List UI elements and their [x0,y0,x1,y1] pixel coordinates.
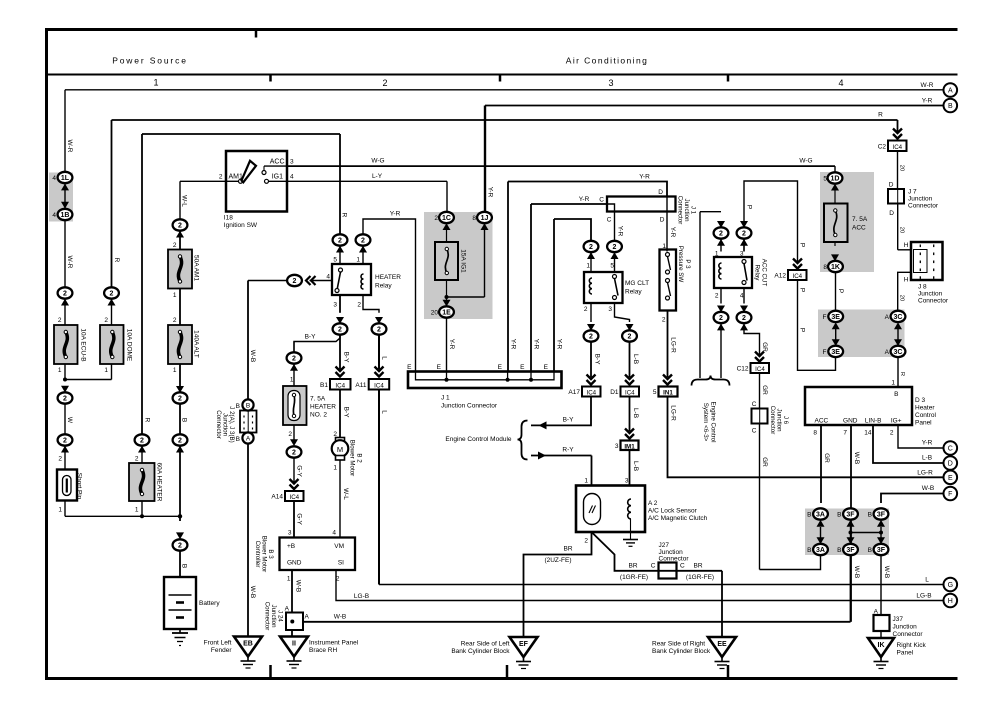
svg-text:20: 20 [431,310,439,317]
svg-text:Connector: Connector [215,410,222,439]
svg-text:Short Pin: Short Pin [75,473,82,500]
svg-text:C2: C2 [878,144,887,151]
svg-text:System <6-3>: System <6-3> [702,403,709,442]
svg-text:1: 1 [891,380,895,387]
svg-text:3: 3 [608,78,613,88]
svg-text:IC4: IC4 [335,382,345,389]
svg-text:G: G [948,582,953,589]
svg-text:2: 2 [589,334,593,341]
svg-text:Ignition SW: Ignition SW [224,222,258,229]
svg-text:Junction: Junction [918,291,943,298]
svg-text:D: D [658,189,663,196]
svg-text:10A ECU-B: 10A ECU-B [79,328,86,361]
svg-text:2: 2 [292,450,296,457]
svg-text:4: 4 [52,175,56,182]
svg-text:B: B [868,512,872,519]
svg-text:Power Source: Power Source [112,56,188,66]
svg-text:2: 2 [178,396,182,403]
svg-text:B 2: B 2 [355,453,362,463]
svg-text:2: 2 [178,438,182,445]
svg-text:Air Conditioning: Air Conditioning [566,56,648,66]
svg-text:1: 1 [287,576,291,583]
svg-text:VM: VM [334,543,344,550]
svg-text:2: 2 [110,291,114,298]
svg-text:1C: 1C [442,215,451,222]
svg-text:L-B: L-B [632,461,639,471]
svg-text:4: 4 [52,212,56,219]
svg-text:A: A [948,88,953,95]
svg-text:A: A [885,314,890,321]
svg-text:4: 4 [290,173,294,180]
svg-text:1K: 1K [831,264,840,271]
svg-text:P: P [837,289,844,293]
svg-text:ACC CUT: ACC CUT [760,259,767,287]
svg-text:GR: GR [823,453,830,463]
svg-text:D: D [948,461,953,468]
svg-text:(1GR-FE): (1GR-FE) [620,574,648,581]
svg-text:Connector: Connector [263,602,270,631]
svg-text:W-B: W-B [334,613,347,620]
svg-text:II: II [292,641,296,648]
svg-text:(1GR-FE): (1GR-FE) [686,574,714,581]
svg-text:Bank Cylinder Block: Bank Cylinder Block [652,648,711,655]
svg-text:Junction Connector: Junction Connector [441,403,498,410]
svg-text:B: B [868,547,872,554]
svg-text:I18: I18 [224,215,233,222]
svg-text:B: B [837,512,841,519]
svg-text:ACC: ACC [270,159,285,166]
svg-text:Relay: Relay [375,283,392,290]
svg-text:GND: GND [843,418,858,425]
svg-text:2: 2 [63,396,67,403]
svg-text:10A DOME: 10A DOME [125,329,132,362]
svg-text:L-B: L-B [632,354,639,364]
svg-text:W-L: W-L [180,195,187,207]
svg-text:B: B [948,103,953,110]
svg-text:3C: 3C [894,349,903,356]
svg-text:7. 5A: 7. 5A [310,396,326,403]
svg-text:2: 2 [104,317,108,324]
svg-text:LG-B: LG-B [916,593,931,600]
svg-text:E: E [544,364,549,371]
svg-text:3F: 3F [877,512,886,519]
svg-text:2: 2 [333,431,337,438]
svg-text:C12: C12 [737,366,749,373]
svg-text:3: 3 [625,478,629,485]
svg-text:A/C Magnetic Clutch: A/C Magnetic Clutch [648,515,708,522]
svg-text:C: C [752,401,757,408]
svg-text:B: B [807,547,811,554]
svg-text:J 7: J 7 [908,189,917,196]
svg-text:EF: EF [519,641,529,648]
svg-text:2: 2 [613,244,617,251]
svg-text:R: R [340,213,347,218]
svg-text:ACC: ACC [852,225,866,232]
svg-text:HEATER: HEATER [310,404,336,411]
svg-text:1: 1 [58,507,62,514]
svg-text:Connector: Connector [659,556,690,563]
svg-text:IC4: IC4 [892,144,902,151]
svg-text:F: F [823,314,827,321]
svg-text:2: 2 [719,231,723,238]
svg-text:3C: 3C [894,314,903,321]
svg-text:2: 2 [434,215,438,222]
svg-text:2: 2 [584,306,588,313]
svg-text:P 3: P 3 [684,259,691,269]
svg-text:Right Kick: Right Kick [897,642,927,649]
svg-text:B-Y: B-Y [563,417,575,424]
svg-text:GR: GR [761,457,768,467]
svg-text:Instrument Panel: Instrument Panel [309,640,359,647]
svg-text:1: 1 [333,465,337,472]
svg-text:H: H [904,277,909,284]
svg-text:C: C [680,563,685,570]
svg-text:(2UZ-FE): (2UZ-FE) [544,557,571,564]
svg-text:B-Y: B-Y [593,354,600,366]
svg-text:1: 1 [586,263,590,270]
svg-text:IM1: IM1 [624,443,635,450]
svg-text:W-B: W-B [853,566,860,579]
svg-text:5: 5 [333,257,337,264]
svg-text:2: 2 [338,238,342,245]
svg-text:4: 4 [332,530,336,537]
svg-text:Rear Side of Left: Rear Side of Left [461,641,510,648]
svg-text:Y-R: Y-R [922,98,933,105]
svg-text:C: C [651,563,656,570]
svg-text:15A IG1: 15A IG1 [459,249,466,273]
svg-text:R: R [878,112,883,119]
svg-text:Y-R: Y-R [509,339,516,350]
svg-text:2: 2 [288,431,292,438]
svg-text:E: E [407,364,412,371]
svg-text:2: 2 [377,327,381,334]
svg-text:Y-R: Y-R [532,339,539,350]
svg-text:IC4: IC4 [289,494,299,501]
svg-text:20: 20 [898,165,904,171]
svg-text:W-B: W-B [922,485,935,492]
svg-text:R: R [143,418,150,423]
svg-text:L: L [925,577,929,584]
svg-text:R-Y: R-Y [562,447,574,454]
svg-text:8: 8 [813,430,817,437]
svg-text:1: 1 [104,367,108,374]
svg-text:A: A [246,436,251,443]
svg-text:1: 1 [135,507,139,514]
svg-text:5: 5 [610,263,614,270]
svg-text:LG-R: LG-R [669,337,676,353]
svg-text:Connector: Connector [918,298,949,305]
svg-text:Fender: Fender [211,647,232,654]
svg-text:B1: B1 [320,382,328,389]
svg-text:2: 2 [63,438,67,445]
svg-text:2: 2 [135,456,139,463]
svg-text:W-G: W-G [371,158,384,165]
svg-text:Blower Motor: Blower Motor [348,440,355,476]
svg-text:A12: A12 [774,273,786,280]
svg-text:4: 4 [838,78,843,88]
svg-text:B: B [236,436,240,443]
svg-text:2: 2 [662,317,666,324]
svg-text:Brace RH: Brace RH [309,647,337,654]
svg-text:Front Left: Front Left [204,640,232,647]
svg-text:3A: 3A [816,512,825,519]
svg-text:A11: A11 [355,382,366,389]
svg-text:20: 20 [898,227,904,233]
svg-text:A14: A14 [271,494,283,501]
svg-text:EE: EE [717,641,727,648]
svg-text:Y-R: Y-R [922,440,933,447]
svg-text:1: 1 [173,292,177,299]
svg-text:W-B: W-B [294,580,301,593]
svg-text:5: 5 [653,389,657,396]
svg-text:3: 3 [608,306,612,313]
svg-text:2: 2 [58,456,62,463]
svg-text:B-Y: B-Y [305,334,317,341]
svg-text:1: 1 [290,377,294,384]
svg-text:3F: 3F [846,512,855,519]
svg-text:W: W [66,417,73,424]
svg-text:E: E [520,364,525,371]
svg-text:B-Y: B-Y [342,407,349,419]
svg-text:Control: Control [915,412,937,419]
svg-text:LIN-B: LIN-B [865,418,882,425]
svg-text:D: D [660,217,665,224]
svg-text:F: F [823,349,827,356]
svg-text:3: 3 [615,443,619,450]
svg-text:8: 8 [472,215,476,222]
svg-text:W-G: W-G [799,158,812,165]
svg-text:BR: BR [563,546,572,553]
svg-text:Panel: Panel [915,420,932,427]
svg-text:C: C [599,197,604,204]
svg-text:J 1: J 1 [441,395,450,402]
svg-text:C: C [948,446,953,453]
svg-text:ACC: ACC [815,418,829,425]
svg-text:J 8: J 8 [918,284,927,291]
svg-text:Relay: Relay [753,265,760,282]
svg-text:3F: 3F [846,547,855,554]
svg-text:Pressure SW: Pressure SW [677,246,684,283]
svg-text:2: 2 [715,293,719,300]
svg-text:L-B: L-B [922,455,932,462]
svg-text:L: L [380,356,387,360]
svg-text:2: 2 [584,538,588,545]
svg-text:GR: GR [761,385,768,395]
svg-text:3: 3 [333,302,337,309]
svg-text:1B: 1B [61,212,70,219]
svg-text:2: 2 [178,543,182,550]
svg-text:Controller: Controller [254,541,261,568]
svg-text:BR: BR [693,563,702,570]
svg-text:B-Y: B-Y [342,352,349,364]
svg-text:4: 4 [326,274,330,281]
svg-text:2: 2 [178,223,182,230]
svg-text:D: D [889,210,894,217]
svg-text:IC4: IC4 [755,366,765,373]
svg-text:H: H [948,598,953,605]
svg-text:D1: D1 [610,389,619,396]
svg-text:2: 2 [293,278,297,285]
svg-text:MG CLT: MG CLT [625,280,649,287]
svg-text:3E: 3E [831,314,840,321]
svg-text:2: 2 [219,173,223,180]
svg-text:E: E [437,364,442,371]
svg-text:B: B [180,564,187,568]
svg-text:W-L: W-L [342,488,349,500]
svg-text:Panel: Panel [897,650,914,657]
svg-text:C: C [752,428,757,435]
svg-text:GND: GND [287,560,302,567]
svg-text:B: B [807,512,811,519]
svg-text:2: 2 [890,430,894,437]
svg-text:J27: J27 [659,542,670,549]
svg-text:2: 2 [292,356,296,363]
svg-text:HEATER: HEATER [375,274,401,281]
svg-text:1: 1 [153,78,158,88]
svg-text:A: A [885,349,890,356]
svg-text:3: 3 [288,530,292,537]
svg-text:2: 2 [63,291,67,298]
svg-text:R: R [113,258,120,263]
svg-text:A: A [305,614,310,621]
svg-text:L-B: L-B [632,408,639,418]
svg-text:P: P [798,243,805,247]
svg-text:Connector: Connector [676,196,683,225]
svg-text:Junction: Junction [908,196,933,203]
svg-text:SI: SI [338,560,344,567]
svg-text:IC4: IC4 [625,390,635,397]
svg-text:1J: 1J [481,215,489,222]
svg-text:7. 5A: 7. 5A [852,216,868,223]
svg-text:A 2: A 2 [648,500,658,507]
svg-text:Y-R: Y-R [579,196,590,203]
svg-text:1: 1 [584,478,588,485]
svg-text:IN1: IN1 [663,390,673,397]
svg-text:2: 2 [382,78,387,88]
svg-text:Connector: Connector [908,203,939,210]
svg-text:A: A [285,606,290,613]
svg-text:Y-R: Y-R [390,211,401,218]
svg-text:IG+: IG+ [891,418,902,425]
svg-text:2: 2 [589,244,593,251]
svg-text:1: 1 [173,367,177,374]
svg-text:2: 2 [173,242,177,249]
svg-text:2: 2 [628,334,632,341]
svg-text:14: 14 [864,430,872,437]
svg-text:Y-R: Y-R [555,339,562,350]
svg-text:LG-R: LG-R [917,469,933,476]
svg-text:LG-B: LG-B [354,593,369,600]
svg-text:3F: 3F [877,547,886,554]
svg-text:E: E [948,475,953,482]
svg-text:Rear Side of Right: Rear Side of Right [652,641,705,648]
svg-text:2: 2 [338,327,342,334]
svg-text:D: D [889,182,894,189]
svg-text:C: C [607,217,612,224]
svg-text:2: 2 [361,238,365,245]
svg-text:GR: GR [761,342,768,352]
svg-text:B: B [180,418,187,422]
svg-text:2: 2 [742,231,746,238]
svg-text:8: 8 [823,264,827,271]
svg-text:E: E [498,364,503,371]
svg-text:B: B [246,403,250,410]
svg-text:W-R: W-R [921,82,934,89]
svg-text:IG1: IG1 [272,173,283,180]
svg-text:Engine Control: Engine Control [709,402,716,443]
svg-text:IC4: IC4 [586,390,596,397]
svg-text:2: 2 [719,315,723,322]
svg-text:A17: A17 [568,389,580,396]
svg-text:G-Y: G-Y [295,465,302,477]
svg-text:P: P [798,328,805,332]
svg-text:W-B: W-B [249,350,256,363]
svg-text:Relay: Relay [625,289,642,296]
svg-text:LG-R: LG-R [669,405,676,421]
svg-text:1: 1 [356,257,360,264]
svg-text:Junction: Junction [893,624,918,631]
svg-text:L-Y: L-Y [372,173,383,180]
svg-text:F: F [948,491,952,498]
svg-text:50A AM1: 50A AM1 [192,255,199,281]
svg-text:2: 2 [357,302,361,309]
svg-text:1E: 1E [442,310,451,317]
svg-text:1L: 1L [61,175,70,182]
svg-text:4: 4 [740,293,744,300]
svg-text:Engine Control Module: Engine Control Module [445,436,512,443]
svg-text:20: 20 [898,295,904,301]
svg-text:NO. 2: NO. 2 [310,412,327,419]
svg-text:W-R: W-R [66,140,73,153]
svg-text:2: 2 [742,315,746,322]
svg-text:B: B [837,547,841,554]
svg-text:Bank Cylinder Block: Bank Cylinder Block [451,648,510,655]
svg-text:B: B [894,391,898,398]
svg-text:B: B [236,403,240,410]
svg-text:IK: IK [878,642,885,649]
svg-text:5: 5 [823,176,827,183]
svg-text:60A HEATER: 60A HEATER [155,463,162,502]
svg-text:P: P [745,205,752,209]
svg-text:+B: +B [287,543,295,550]
svg-text:2: 2 [173,317,177,324]
svg-text:BR: BR [628,563,637,570]
svg-text:R: R [899,372,905,376]
svg-text:1D: 1D [831,176,840,183]
svg-text:IC4: IC4 [792,273,802,280]
svg-text:W-R: W-R [66,256,73,269]
svg-text:Connector: Connector [893,631,924,638]
svg-text:M: M [337,445,343,454]
svg-text:3A: 3A [816,547,825,554]
svg-text:IC4: IC4 [374,382,384,389]
svg-text:W-B: W-B [853,452,860,465]
svg-text:3E: 3E [831,349,840,356]
svg-text:2: 2 [58,317,62,324]
svg-text:Y-R: Y-R [448,339,455,350]
svg-text:W-B: W-B [883,566,890,579]
svg-text:140A ALT: 140A ALT [192,330,199,358]
svg-text:Y-R: Y-R [639,174,650,181]
svg-text:W-B: W-B [249,586,256,599]
svg-text:Y-R: Y-R [486,187,493,198]
svg-text:Y-R: Y-R [616,226,623,237]
svg-text:1: 1 [58,367,62,374]
svg-text:L: L [380,410,387,414]
svg-text:Battery: Battery [199,600,220,607]
svg-text:7: 7 [843,430,847,437]
svg-text:3: 3 [290,159,294,166]
